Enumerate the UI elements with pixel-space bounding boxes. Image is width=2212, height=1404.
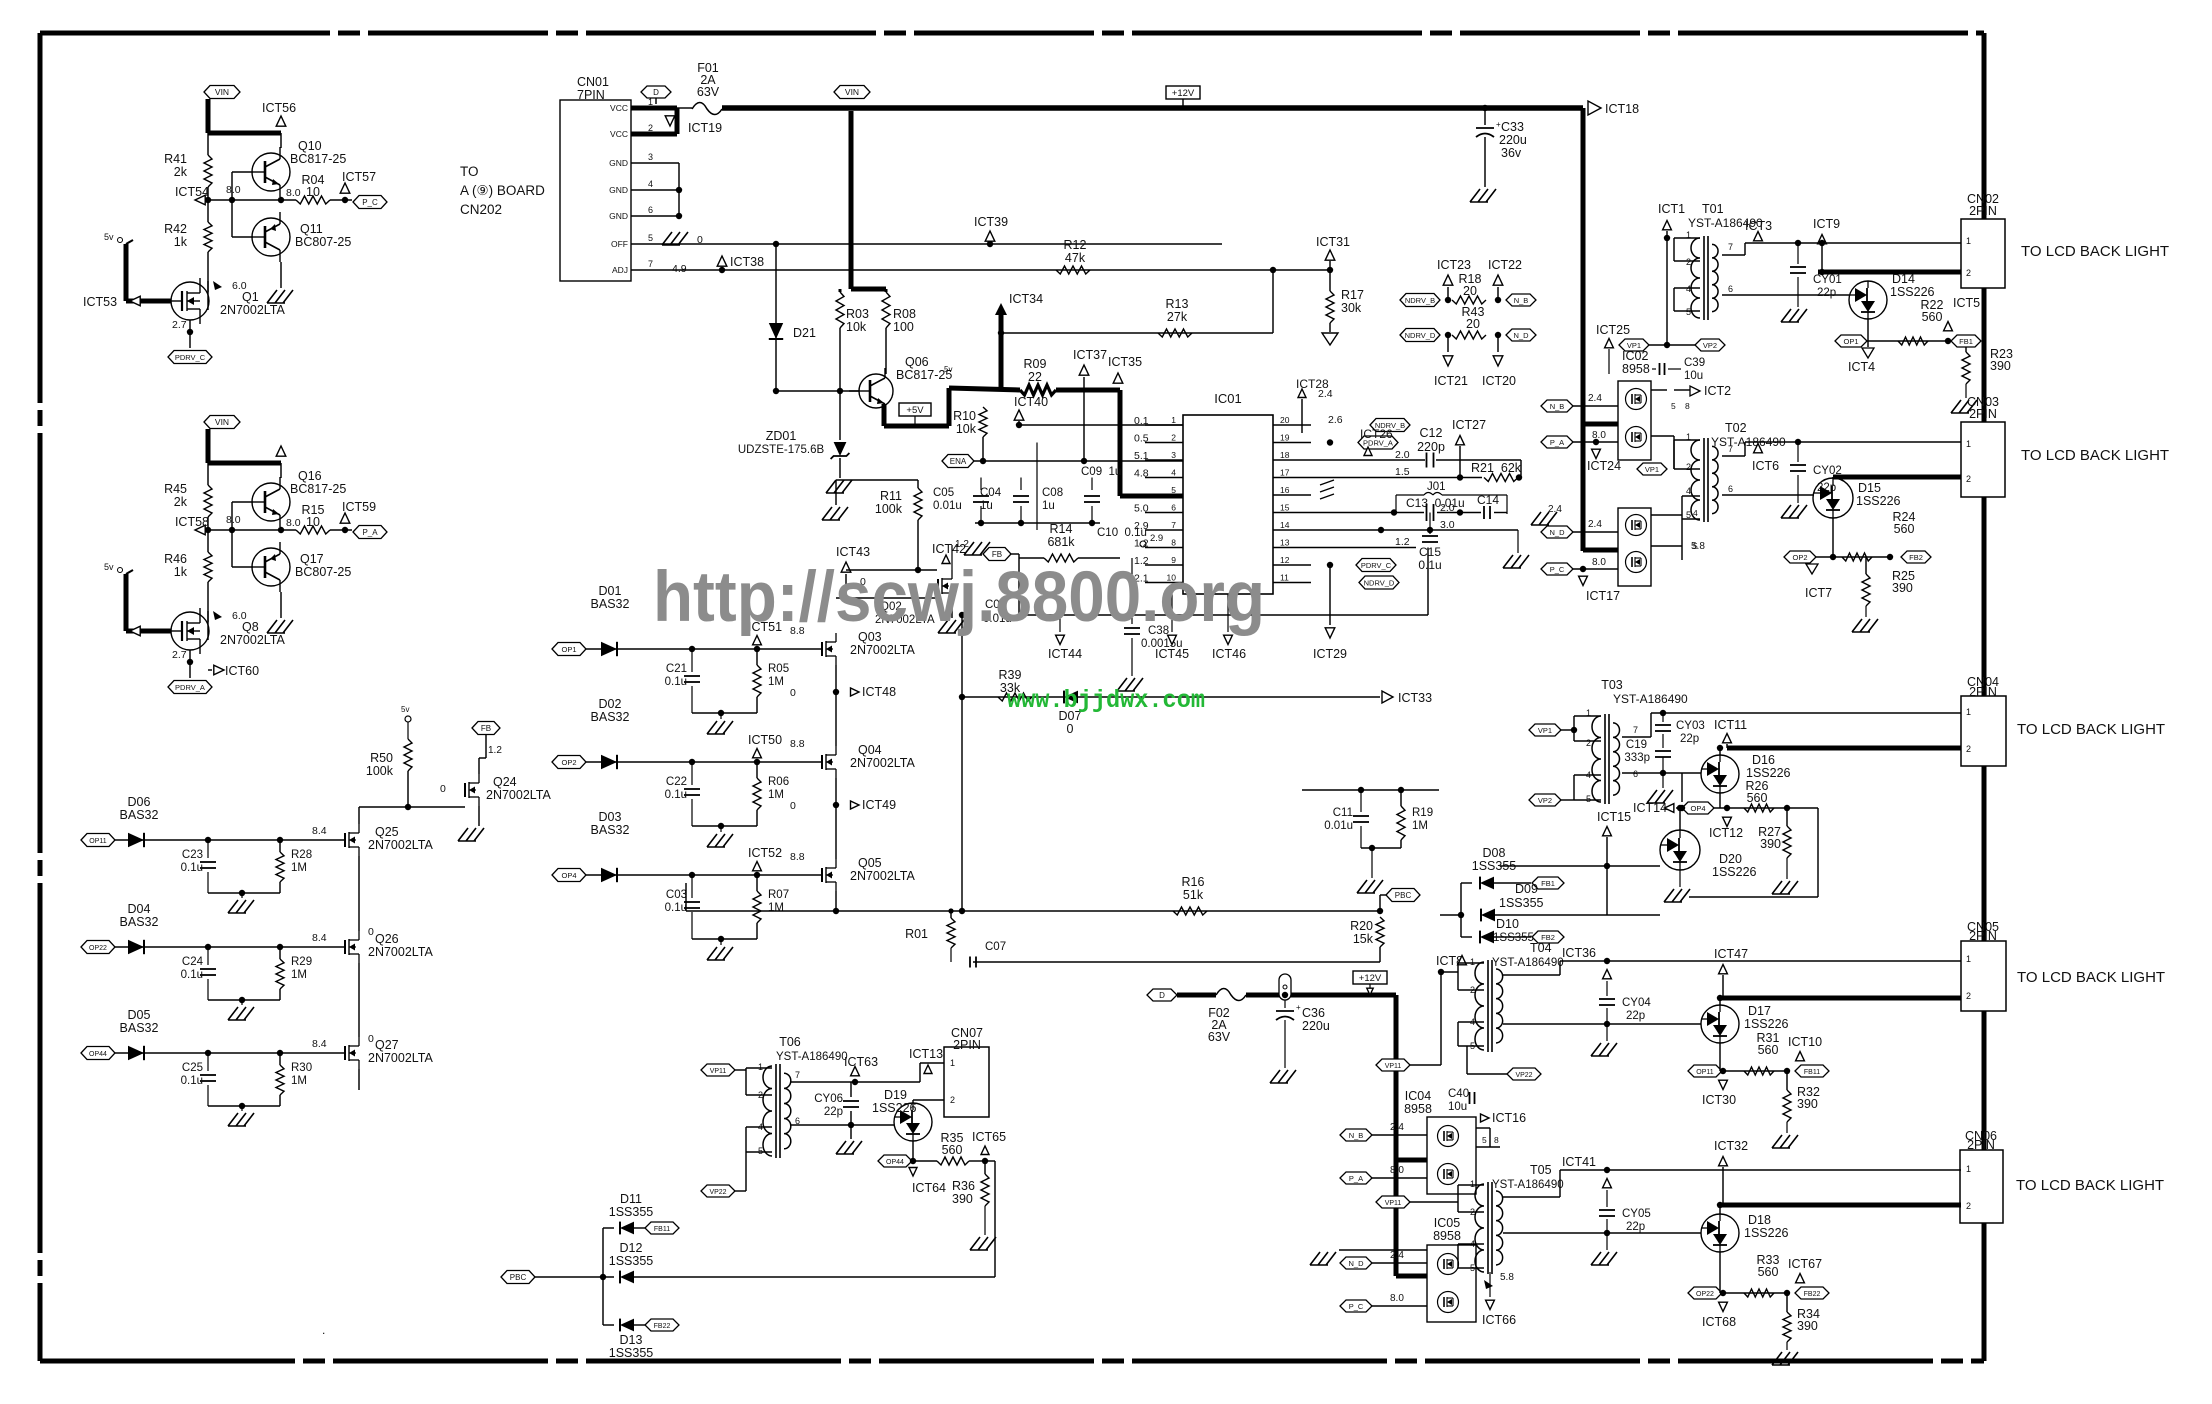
svg-text:1SS355: 1SS355 xyxy=(609,1205,654,1219)
svg-text:D16: D16 xyxy=(1752,753,1775,767)
svg-text:1: 1 xyxy=(1966,954,1971,964)
svg-text:P_C: P_C xyxy=(1349,1302,1364,1311)
svg-text:ICT41: ICT41 xyxy=(1562,1155,1596,1169)
svg-text:IC05: IC05 xyxy=(1434,1216,1460,1230)
svg-text:C21: C21 xyxy=(666,663,687,675)
svg-text:C22: C22 xyxy=(666,776,687,788)
svg-text:R06: R06 xyxy=(768,776,789,788)
svg-text:YST-A186490: YST-A186490 xyxy=(1492,1179,1564,1191)
svg-text:+12V: +12V xyxy=(1359,973,1382,984)
svg-text:2: 2 xyxy=(1966,1201,1971,1211)
svg-text:T05: T05 xyxy=(1530,1163,1552,1177)
svg-text:D01: D01 xyxy=(599,584,622,598)
svg-text:2: 2 xyxy=(1171,433,1176,443)
svg-text:0: 0 xyxy=(368,926,374,938)
svg-text:ENA: ENA xyxy=(950,457,967,466)
svg-text:CY05: CY05 xyxy=(1622,1208,1651,1220)
svg-text:2: 2 xyxy=(1686,462,1691,472)
svg-text:Q8: Q8 xyxy=(242,620,259,634)
svg-text:8.0: 8.0 xyxy=(1390,1293,1404,1304)
svg-text:R28: R28 xyxy=(291,849,312,861)
svg-text:390: 390 xyxy=(1990,359,2011,373)
svg-text:ICT68: ICT68 xyxy=(1702,1315,1736,1329)
svg-text:C13 0.01u: C13 0.01u xyxy=(1406,496,1465,510)
svg-text:VP22: VP22 xyxy=(1515,1072,1532,1079)
svg-text:CN202: CN202 xyxy=(460,202,502,217)
svg-text:8.0: 8.0 xyxy=(226,184,241,196)
svg-text:30k: 30k xyxy=(1341,301,1362,315)
svg-text:1M: 1M xyxy=(768,789,784,801)
svg-text:10k: 10k xyxy=(846,320,867,334)
svg-text:www.bjjdwx.com: www.bjjdwx.com xyxy=(1007,686,1205,715)
svg-text:D10: D10 xyxy=(1496,917,1519,931)
svg-text:ICT12: ICT12 xyxy=(1709,826,1743,840)
svg-text:2N7002LTA: 2N7002LTA xyxy=(220,633,286,647)
svg-text:C08: C08 xyxy=(1042,487,1063,499)
svg-text:C12: C12 xyxy=(1420,426,1443,440)
svg-text:BAS32: BAS32 xyxy=(120,808,159,822)
svg-text:Q25: Q25 xyxy=(375,825,399,839)
svg-text:GND: GND xyxy=(609,211,628,221)
svg-text:2N7002LTA: 2N7002LTA xyxy=(486,788,552,802)
svg-text:ICT32: ICT32 xyxy=(1714,1139,1748,1153)
svg-text:NDRV_D: NDRV_D xyxy=(1405,331,1436,340)
svg-text:1: 1 xyxy=(1470,957,1475,967)
svg-text:.: . xyxy=(322,1323,325,1337)
svg-text:22: 22 xyxy=(1028,370,1042,384)
svg-text:ICT58: ICT58 xyxy=(175,515,209,529)
svg-text:6: 6 xyxy=(648,205,653,215)
svg-text:17: 17 xyxy=(1280,468,1290,478)
svg-text:2: 2 xyxy=(1966,268,1971,278)
svg-text:+12V: +12V xyxy=(1172,88,1195,99)
svg-text:2: 2 xyxy=(1586,738,1591,748)
svg-text:CY03: CY03 xyxy=(1676,720,1705,732)
svg-text:C14: C14 xyxy=(1477,493,1499,507)
svg-text:2N7002LTA: 2N7002LTA xyxy=(850,869,916,883)
svg-text:ICT26: ICT26 xyxy=(1360,427,1393,441)
svg-text:C09 1u: C09 1u xyxy=(1081,466,1121,478)
svg-text:P_A: P_A xyxy=(1550,438,1564,447)
svg-text:D: D xyxy=(1159,991,1165,1000)
svg-text:OFF: OFF xyxy=(611,239,628,249)
svg-text:10k: 10k xyxy=(956,422,977,436)
svg-text:BAS32: BAS32 xyxy=(120,1021,159,1035)
svg-text:Q16: Q16 xyxy=(298,469,322,483)
svg-text:ICT53: ICT53 xyxy=(83,295,117,309)
svg-text:10: 10 xyxy=(306,515,320,529)
svg-text:8.4: 8.4 xyxy=(312,932,327,944)
svg-text:BC807-25: BC807-25 xyxy=(295,565,351,579)
svg-text:R14: R14 xyxy=(1050,522,1073,536)
svg-text:560: 560 xyxy=(1758,1265,1779,1279)
svg-text:Q26: Q26 xyxy=(375,932,399,946)
svg-text:C07: C07 xyxy=(985,941,1006,953)
svg-text:1SS226: 1SS226 xyxy=(1712,865,1757,879)
svg-text:GND: GND xyxy=(609,158,628,168)
svg-text:D: D xyxy=(653,88,659,97)
svg-text:5v: 5v xyxy=(944,365,952,374)
svg-text:22p: 22p xyxy=(1626,1010,1645,1022)
svg-text:ICT19: ICT19 xyxy=(688,121,722,135)
svg-text:5.0: 5.0 xyxy=(1134,503,1149,515)
svg-text:ICT2: ICT2 xyxy=(1704,384,1731,398)
svg-text:1u: 1u xyxy=(1042,500,1055,512)
svg-text:2PIN: 2PIN xyxy=(1969,407,1997,421)
svg-text:2: 2 xyxy=(1966,474,1971,484)
svg-text:22p: 22p xyxy=(1680,733,1699,745)
svg-text:15: 15 xyxy=(1280,503,1290,513)
svg-text:2: 2 xyxy=(1966,744,1971,754)
svg-text:FB11: FB11 xyxy=(1804,1069,1820,1076)
svg-text:ICT7: ICT7 xyxy=(1805,586,1832,600)
svg-text:R41: R41 xyxy=(164,152,187,166)
svg-text:A (⑨) BOARD: A (⑨) BOARD xyxy=(460,183,545,198)
svg-text:390: 390 xyxy=(1892,581,1913,595)
svg-text:VP11: VP11 xyxy=(1385,1063,1402,1070)
svg-text:VP2: VP2 xyxy=(1703,341,1717,350)
svg-text:ICT67: ICT67 xyxy=(1788,1257,1822,1271)
svg-text:ICT57: ICT57 xyxy=(342,170,376,184)
svg-text:VP1: VP1 xyxy=(1538,726,1552,735)
svg-text:0: 0 xyxy=(440,783,446,795)
svg-text:6: 6 xyxy=(1171,503,1176,513)
svg-text:1M: 1M xyxy=(1412,820,1428,832)
svg-text:12: 12 xyxy=(1280,555,1290,565)
svg-text:0.1u: 0.1u xyxy=(665,789,687,801)
svg-text:0.01u: 0.01u xyxy=(1324,820,1353,832)
svg-text:ICT3: ICT3 xyxy=(1745,219,1772,233)
svg-text:0: 0 xyxy=(368,1033,374,1045)
svg-text:VP1: VP1 xyxy=(1645,465,1659,474)
svg-text:0: 0 xyxy=(1067,722,1074,736)
svg-text:C33: C33 xyxy=(1501,120,1524,134)
svg-text:http://scwj.8800.org: http://scwj.8800.org xyxy=(653,558,1265,637)
svg-text:BAS32: BAS32 xyxy=(591,823,630,837)
svg-text:OP22: OP22 xyxy=(89,945,107,952)
svg-text:Q17: Q17 xyxy=(300,552,324,566)
svg-text:ICT50: ICT50 xyxy=(748,733,782,747)
svg-text:T01: T01 xyxy=(1702,202,1724,216)
svg-text:63V: 63V xyxy=(697,85,720,99)
svg-text:N_B: N_B xyxy=(1550,402,1565,411)
svg-text:22p: 22p xyxy=(1817,287,1836,299)
svg-text:+5V: +5V xyxy=(906,405,924,416)
svg-text:ICT11: ICT11 xyxy=(1714,718,1747,732)
svg-text:ICT44: ICT44 xyxy=(1048,647,1082,661)
svg-text:0.1u: 0.1u xyxy=(181,1075,203,1087)
svg-text:4: 4 xyxy=(1686,486,1691,496)
svg-text:BC807-25: BC807-25 xyxy=(295,235,351,249)
svg-text:Q24: Q24 xyxy=(493,775,517,789)
svg-text:NDRV_D: NDRV_D xyxy=(1364,579,1395,588)
svg-text:560: 560 xyxy=(1758,1043,1779,1057)
svg-text:N_B: N_B xyxy=(1349,1131,1364,1140)
svg-text:R07: R07 xyxy=(768,889,789,901)
svg-text:N_B: N_B xyxy=(1514,296,1529,305)
svg-text:2k: 2k xyxy=(174,495,188,509)
svg-text:CN01: CN01 xyxy=(577,75,609,89)
svg-text:1SS226: 1SS226 xyxy=(1744,1226,1789,1240)
svg-text:ICT54: ICT54 xyxy=(175,185,209,199)
svg-text:Q27: Q27 xyxy=(375,1038,399,1052)
svg-text:T06: T06 xyxy=(779,1035,801,1049)
svg-text:560: 560 xyxy=(942,1143,963,1157)
svg-text:C15: C15 xyxy=(1419,545,1441,559)
svg-text:ICT1: ICT1 xyxy=(1658,202,1685,216)
svg-text:R08: R08 xyxy=(893,307,916,321)
svg-text:FB2: FB2 xyxy=(1909,553,1923,562)
svg-text:BC817-25: BC817-25 xyxy=(290,482,346,496)
svg-text:T03: T03 xyxy=(1601,678,1623,692)
svg-text:1.5: 1.5 xyxy=(1395,466,1410,478)
svg-text:P_C: P_C xyxy=(362,198,378,207)
svg-text:ICT35: ICT35 xyxy=(1108,355,1142,369)
svg-text:3.0: 3.0 xyxy=(1440,519,1455,531)
svg-text:GND: GND xyxy=(609,185,628,195)
svg-text:1SS226: 1SS226 xyxy=(1890,285,1935,299)
svg-text:ICT56: ICT56 xyxy=(262,101,296,115)
svg-text:R20: R20 xyxy=(1350,919,1373,933)
svg-text:ICT64: ICT64 xyxy=(912,1181,946,1195)
svg-text:27k: 27k xyxy=(1167,310,1188,324)
svg-text:FB1: FB1 xyxy=(1541,879,1555,888)
svg-text:PBC: PBC xyxy=(510,1273,527,1282)
svg-text:ICT63: ICT63 xyxy=(844,1055,878,1069)
svg-text:ICT40: ICT40 xyxy=(1014,395,1048,409)
svg-text:8.0: 8.0 xyxy=(1390,1165,1404,1176)
svg-text:6.0: 6.0 xyxy=(232,610,247,622)
svg-text:560: 560 xyxy=(1894,522,1915,536)
svg-text:ICT23: ICT23 xyxy=(1437,258,1471,272)
svg-text:390: 390 xyxy=(952,1192,973,1206)
svg-text:C03: C03 xyxy=(666,889,687,901)
svg-text:2.4: 2.4 xyxy=(1390,1122,1404,1133)
svg-text:IC02: IC02 xyxy=(1622,349,1648,363)
svg-text:D03: D03 xyxy=(599,810,622,824)
svg-text:ICT15: ICT15 xyxy=(1597,810,1631,824)
svg-text:TO LCD BACK LIGHT: TO LCD BACK LIGHT xyxy=(2017,969,2165,986)
svg-text:R13: R13 xyxy=(1166,297,1189,311)
svg-text:5.8: 5.8 xyxy=(1500,1272,1514,1283)
svg-text:FB22: FB22 xyxy=(654,1323,671,1330)
svg-text:1.2: 1.2 xyxy=(1395,536,1410,548)
svg-text:PDRV_C: PDRV_C xyxy=(175,353,206,362)
svg-text:FB22: FB22 xyxy=(1804,1291,1821,1298)
svg-text:ICT66: ICT66 xyxy=(1482,1313,1516,1327)
svg-text:FB: FB xyxy=(481,724,491,733)
svg-text:UDZSTE-175.6B: UDZSTE-175.6B xyxy=(738,444,825,456)
svg-text:NDRV_B: NDRV_B xyxy=(1405,296,1435,305)
svg-text:2.4: 2.4 xyxy=(1588,393,1602,404)
svg-text:63V: 63V xyxy=(1208,1030,1231,1044)
svg-text:5: 5 xyxy=(1686,307,1691,317)
svg-text:1: 1 xyxy=(1966,707,1971,717)
svg-text:7: 7 xyxy=(1728,444,1733,454)
svg-text:ICT28: ICT28 xyxy=(1296,377,1329,391)
svg-text:C25: C25 xyxy=(182,1062,203,1074)
svg-text:1SS355: 1SS355 xyxy=(1493,932,1534,944)
svg-text:8.0: 8.0 xyxy=(1592,557,1606,568)
svg-text:D13: D13 xyxy=(620,1333,643,1347)
svg-text:ICT30: ICT30 xyxy=(1702,1093,1736,1107)
svg-text:CY04: CY04 xyxy=(1622,997,1651,1009)
svg-text:3: 3 xyxy=(1171,450,1176,460)
svg-text:ICT18: ICT18 xyxy=(1605,102,1639,116)
svg-text:2N7002LTA: 2N7002LTA xyxy=(368,1051,434,1065)
svg-text:C05: C05 xyxy=(933,487,954,499)
svg-text:R21 62k: R21 62k xyxy=(1471,461,1522,475)
svg-text:20: 20 xyxy=(1280,415,1290,425)
svg-text:PBC: PBC xyxy=(1395,891,1412,900)
svg-text:10u: 10u xyxy=(1448,1101,1467,1113)
svg-text:390: 390 xyxy=(1797,1319,1818,1333)
svg-text:Q11: Q11 xyxy=(300,222,323,236)
svg-text:3: 3 xyxy=(648,152,653,162)
svg-text:681k: 681k xyxy=(1047,535,1075,549)
svg-text:5: 5 xyxy=(648,233,653,243)
svg-text:Q10: Q10 xyxy=(298,139,322,153)
svg-text:IC01: IC01 xyxy=(1214,391,1241,406)
svg-text:OP11: OP11 xyxy=(89,838,106,845)
svg-text:1: 1 xyxy=(1966,236,1971,246)
svg-text:YST-A186490: YST-A186490 xyxy=(1492,957,1564,969)
svg-text:8958: 8958 xyxy=(1433,1229,1461,1243)
svg-text:1u: 1u xyxy=(980,500,993,512)
svg-text:1.2: 1.2 xyxy=(488,745,502,756)
svg-text:390: 390 xyxy=(1797,1097,1818,1111)
svg-text:+: + xyxy=(1296,1003,1301,1012)
svg-text:D04: D04 xyxy=(128,902,151,916)
svg-text:0.1u: 0.1u xyxy=(665,676,687,688)
svg-text:ICT9: ICT9 xyxy=(1813,217,1840,231)
svg-text:D17: D17 xyxy=(1748,1004,1771,1018)
svg-text:5.1: 5.1 xyxy=(1134,450,1149,462)
svg-text:VIN: VIN xyxy=(215,417,229,427)
svg-text:ICT24: ICT24 xyxy=(1587,459,1621,473)
svg-text:4: 4 xyxy=(648,179,653,189)
svg-text:R19: R19 xyxy=(1412,807,1433,819)
svg-text:ICT25: ICT25 xyxy=(1596,323,1630,337)
svg-text:C36: C36 xyxy=(1302,1006,1325,1020)
svg-text:5: 5 xyxy=(758,1146,763,1156)
svg-text:1: 1 xyxy=(1470,1179,1475,1189)
svg-text:YST-A186490: YST-A186490 xyxy=(1613,692,1688,706)
svg-text:333p: 333p xyxy=(1624,752,1650,764)
svg-text:8958: 8958 xyxy=(1622,362,1650,376)
svg-text:OP2: OP2 xyxy=(1792,553,1807,562)
svg-text:2N7002LTA: 2N7002LTA xyxy=(220,303,286,317)
svg-text:1SS226: 1SS226 xyxy=(1746,766,1791,780)
svg-text:ICT43: ICT43 xyxy=(836,545,870,559)
svg-text:7: 7 xyxy=(1171,520,1176,530)
svg-text:ICT21: ICT21 xyxy=(1434,374,1468,388)
svg-text:1: 1 xyxy=(758,1062,763,1072)
svg-text:1.2: 1.2 xyxy=(955,539,969,550)
svg-text:ICT46: ICT46 xyxy=(1212,647,1246,661)
svg-text:ICT45: ICT45 xyxy=(1155,647,1189,661)
svg-text:ICT17: ICT17 xyxy=(1586,589,1620,603)
svg-text:7: 7 xyxy=(1728,242,1733,252)
svg-text:CY06: CY06 xyxy=(814,1093,843,1105)
svg-text:R45: R45 xyxy=(164,482,187,496)
svg-text:4.9: 4.9 xyxy=(672,263,687,275)
svg-text:0.1u: 0.1u xyxy=(1418,558,1441,572)
svg-text:OP11: OP11 xyxy=(1696,1069,1713,1076)
svg-text:VP2: VP2 xyxy=(1538,796,1552,805)
svg-text:2N7002LTA: 2N7002LTA xyxy=(850,756,916,770)
svg-text:ICT47: ICT47 xyxy=(1714,947,1748,961)
svg-text:VIN: VIN xyxy=(845,87,859,97)
svg-text:0.1u: 0.1u xyxy=(665,902,687,914)
svg-text:CY01: CY01 xyxy=(1813,274,1842,286)
svg-text:D09: D09 xyxy=(1515,882,1538,896)
svg-text:560: 560 xyxy=(1747,791,1768,805)
svg-text:2k: 2k xyxy=(174,165,188,179)
svg-text:0.1: 0.1 xyxy=(1134,415,1149,427)
svg-text:1SS226: 1SS226 xyxy=(1856,494,1901,508)
svg-text:D05: D05 xyxy=(128,1008,151,1022)
svg-text:R39: R39 xyxy=(999,668,1022,682)
svg-text:4: 4 xyxy=(1693,508,1698,518)
svg-text:5: 5 xyxy=(1693,541,1698,551)
svg-text:ICT14: ICT14 xyxy=(1633,801,1667,815)
svg-text:1M: 1M xyxy=(291,862,307,874)
svg-text:8.0: 8.0 xyxy=(286,517,301,529)
svg-text:2.9: 2.9 xyxy=(1150,533,1163,544)
svg-text:2.7: 2.7 xyxy=(172,319,187,331)
svg-text:ADJ: ADJ xyxy=(612,265,628,275)
svg-text:D15: D15 xyxy=(1858,481,1881,495)
svg-text:220p: 220p xyxy=(1417,440,1445,454)
svg-text:4.8: 4.8 xyxy=(1134,468,1149,480)
svg-text:2: 2 xyxy=(1686,257,1691,267)
svg-text:18: 18 xyxy=(1280,450,1290,460)
svg-text:100k: 100k xyxy=(875,502,903,516)
svg-text:11: 11 xyxy=(1280,573,1289,583)
svg-text:ICT59: ICT59 xyxy=(342,500,376,514)
svg-text:8: 8 xyxy=(1685,401,1690,411)
svg-text:D19: D19 xyxy=(884,1088,907,1102)
svg-text:OP22: OP22 xyxy=(1696,1291,1714,1298)
svg-text:20: 20 xyxy=(1463,284,1477,298)
svg-text:Q05: Q05 xyxy=(858,856,882,870)
svg-text:47k: 47k xyxy=(1065,251,1086,265)
svg-text:R11: R11 xyxy=(880,489,902,503)
svg-text:1.2: 1.2 xyxy=(1134,538,1149,550)
svg-text:OP4: OP4 xyxy=(1690,804,1705,813)
svg-text:R29: R29 xyxy=(291,956,312,968)
svg-text:C40: C40 xyxy=(1448,1088,1469,1100)
svg-text:D18: D18 xyxy=(1748,1213,1771,1227)
svg-text:5: 5 xyxy=(1171,485,1176,495)
svg-text:1: 1 xyxy=(1966,439,1971,449)
svg-text:R36: R36 xyxy=(952,1179,975,1193)
svg-text:8: 8 xyxy=(1494,1135,1499,1145)
svg-text:1SS355: 1SS355 xyxy=(609,1346,654,1360)
svg-text:P_C: P_C xyxy=(1550,565,1565,574)
svg-text:TO LCD BACK LIGHT: TO LCD BACK LIGHT xyxy=(2021,243,2169,260)
svg-text:2PIN: 2PIN xyxy=(1969,204,1997,218)
svg-text:R05: R05 xyxy=(768,663,789,675)
svg-text:BC817-25: BC817-25 xyxy=(290,152,346,166)
svg-text:2: 2 xyxy=(950,1095,955,1105)
svg-text:8.4: 8.4 xyxy=(312,1038,327,1050)
svg-text:TO LCD BACK LIGHT: TO LCD BACK LIGHT xyxy=(2016,1177,2164,1194)
svg-text:FB1: FB1 xyxy=(1959,337,1973,346)
svg-text:51k: 51k xyxy=(1183,888,1204,902)
svg-text:C19: C19 xyxy=(1626,739,1647,751)
